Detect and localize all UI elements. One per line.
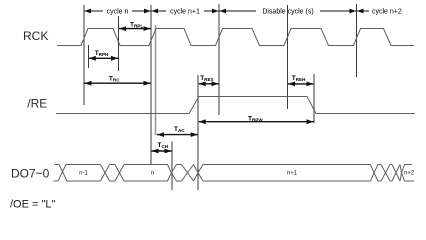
svg-text:TRC: TRC bbox=[109, 75, 120, 82]
node boundary line x=84 bbox=[83, 5, 85, 105]
dimension TREH bbox=[288, 75, 314, 87]
dimension TRPH bbox=[89, 50, 118, 61]
cycle n+2 arrow bbox=[357, 9, 402, 16]
svg-text:TREH: TREH bbox=[292, 75, 306, 82]
dimension TAC bbox=[157, 126, 198, 137]
svg-text:RCK: RCK bbox=[23, 29, 48, 43]
node boundary line x=151 bbox=[150, 5, 152, 165]
bus section n+2 bbox=[402, 165, 415, 182]
bus hatched hexagon with X bbox=[171, 165, 181, 173]
bus short rails bbox=[110, 164, 116, 166]
cycle n arrow bbox=[85, 9, 151, 16]
Disable cycle (s) arrow bbox=[220, 9, 357, 16]
cycle n+1 arrow bbox=[152, 9, 219, 16]
svg-text:cycle n: cycle n bbox=[107, 9, 129, 16]
svg-text:TRPH: TRPH bbox=[95, 50, 109, 57]
svg-text:n-1: n-1 bbox=[79, 170, 88, 176]
node boundary line x=356.5 bbox=[356, 4, 358, 77]
svg-text:/RE: /RE bbox=[27, 96, 47, 110]
bus start stubs bbox=[55, 164, 60, 166]
svg-text:/OE = "L": /OE = "L" bbox=[10, 199, 56, 211]
node boundary line x=219 bbox=[218, 4, 220, 115]
/RE waveform bbox=[56, 97, 415, 114]
bus section n bbox=[124, 164, 168, 166]
dimension TRES bbox=[199, 75, 219, 86]
tick TRPL/TRPH x=118.5 bbox=[118, 16, 120, 71]
bus pinch at 171.3 bbox=[168, 165, 172, 182]
svg-text:TAC: TAC bbox=[174, 126, 185, 133]
svg-text:cycle n+2: cycle n+2 bbox=[372, 9, 402, 16]
DO bus waveform bbox=[54, 165, 415, 182]
svg-text:n: n bbox=[151, 170, 154, 176]
svg-text:TRPW: TRPW bbox=[248, 115, 263, 122]
svg-text:TCH: TCH bbox=[158, 142, 169, 149]
bus hatch 2 bbox=[374, 165, 381, 173]
svg-text:Disable cycle (s): Disable cycle (s) bbox=[262, 9, 313, 16]
tick data-valid x=198.2 bbox=[197, 75, 199, 190]
dimension TRPW bbox=[199, 115, 314, 124]
svg-text:TRPL: TRPL bbox=[130, 22, 143, 29]
svg-text:n+2: n+2 bbox=[404, 170, 415, 176]
tick TCH right x=172 bbox=[171, 142, 173, 191]
node reference line x=156 (RCK rise top, gray) bbox=[155, 25, 157, 135]
node boundary line x=287.5 bbox=[287, 5, 289, 109]
bus X transition 2 bbox=[101, 165, 110, 182]
bus section n-1 bbox=[66, 164, 101, 166]
svg-text:cycle n+1: cycle n+1 bbox=[170, 9, 200, 16]
bus X transition 3 bbox=[115, 165, 124, 182]
dimension TCH bbox=[152, 142, 172, 153]
dimension TRC bbox=[85, 75, 151, 85]
RCK waveform bbox=[57, 29, 414, 46]
bus section n+1 bbox=[198, 165, 374, 182]
svg-text:TRES: TRES bbox=[200, 75, 213, 82]
svg-text:n+1: n+1 bbox=[287, 170, 298, 176]
tick TRPH left x=88.5 bbox=[88, 45, 90, 68]
dimension TRPL bbox=[119, 22, 151, 32]
svg-text:DO7~0: DO7~0 bbox=[11, 166, 50, 180]
bus X transition 1 bbox=[59, 165, 67, 182]
tick /RE fall x=314 bbox=[313, 74, 315, 123]
